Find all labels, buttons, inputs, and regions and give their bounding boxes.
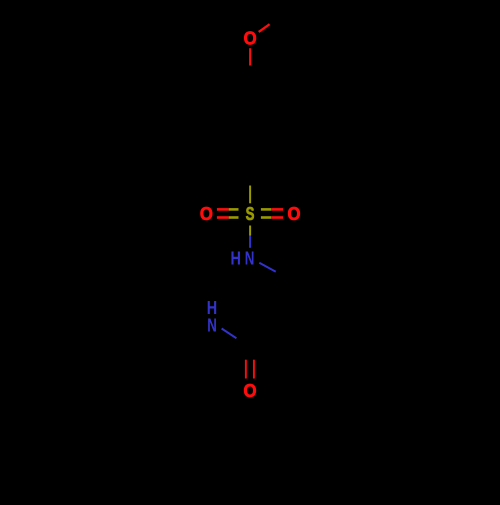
bond N-C(=O), blue half near N: [222, 329, 237, 339]
bond N-C(=O), black half: [237, 338, 252, 348]
svg-text:O: O: [244, 29, 257, 49]
svg-text:O: O: [200, 204, 213, 224]
bond OMe-CH3, red half at O: [259, 24, 270, 32]
bond N-phenyl, black (invisible): [178, 335, 212, 360]
bond C-OMe upper half (black toward CH3): [270, 16, 282, 24]
bond O-ring, black half near ring: [249, 66, 251, 84]
bond C=O double, red halves near O: [246, 360, 254, 379]
S=O left double bond, olive halves: [229, 209, 239, 217]
svg-text:O: O: [244, 381, 257, 401]
bond O-ring, red half near O: [249, 48, 251, 65]
phenyl ring on amide N (black/invisible): [178, 337, 256, 429]
svg-text:H: H: [230, 247, 240, 268]
svg-text:N: N: [207, 314, 217, 335]
bond ring-S, black half: [249, 176, 251, 186]
bond N-ring, blue half near N: [259, 263, 276, 272]
bond S-N, olive half near S: [249, 226, 251, 236]
central benzene ring (carbon bonds black/invisible): [253, 281, 337, 377]
svg-text:N: N: [245, 247, 255, 268]
bond ring-S, olive half near S: [249, 186, 251, 204]
S=O right double bond, olive halves: [261, 209, 271, 217]
svg-text:S: S: [246, 204, 255, 224]
bond N-ring, black half: [276, 272, 293, 281]
bond S-N, blue half near N: [249, 236, 251, 248]
S=O left double bond, red halves: [217, 209, 229, 217]
benzene ring (4-methoxyphenyl, carbon bonds black/invisible): [211, 84, 290, 176]
bond C=O double, black halves near C: [246, 348, 254, 360]
S=O right double bond, red halves: [271, 209, 283, 217]
svg-text:O: O: [288, 204, 301, 224]
